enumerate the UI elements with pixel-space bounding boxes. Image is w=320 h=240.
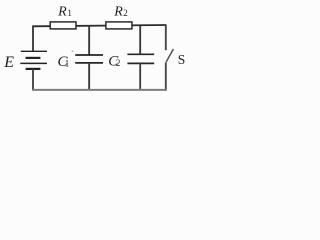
switch S blade <box>166 49 174 63</box>
wire switch lower stub <box>165 63 167 91</box>
resistor R2 <box>106 22 132 29</box>
wire top horizontal <box>33 25 167 26</box>
svg-text:S: S <box>178 52 186 67</box>
wire C2 lower branch <box>139 63 141 90</box>
wire C1 lower branch <box>88 63 90 91</box>
wire battery top stub <box>32 25 34 51</box>
wire battery bottom stub <box>32 69 34 91</box>
svg-text:2: 2 <box>123 8 128 18</box>
resistor R1 <box>50 22 76 29</box>
svg-text:R: R <box>57 4 67 19</box>
battery E plate short upper <box>26 57 41 59</box>
battery E plate short lower <box>26 68 41 70</box>
svg-text:2: 2 <box>116 58 121 68</box>
capacitor C1 plate bottom <box>75 62 103 64</box>
wire switch upper stub <box>165 25 167 50</box>
svg-text:1: 1 <box>67 8 72 18</box>
svg-text:E: E <box>3 54 14 71</box>
svg-text:R: R <box>113 4 123 19</box>
capacitor C2 plate top <box>127 53 154 55</box>
battery E plate long bottom <box>20 62 47 64</box>
wire C1 upper branch <box>88 25 90 55</box>
capacitor C2 plate bottom <box>127 62 154 64</box>
battery E plate long top <box>21 50 47 52</box>
wire C2 upper branch <box>139 25 141 54</box>
capacitor C1 plate top <box>75 54 103 56</box>
wire bottom horizontal <box>32 89 166 91</box>
svg-text:1: 1 <box>65 58 70 68</box>
stray mark near C1 plate <box>72 50 74 52</box>
